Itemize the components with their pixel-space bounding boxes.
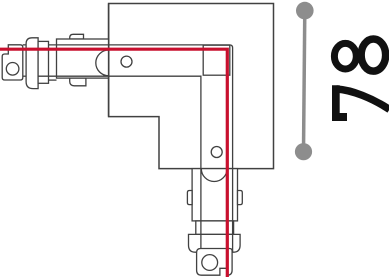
bottom connector cap hole: [202, 255, 218, 271]
plate (main square body with notched corner): [109, 4, 274, 169]
corner box: [203, 45, 230, 75]
plate left edge redraw: [108, 4, 110, 117]
connector left pivot arc: [96, 50, 109, 76]
dimension dot bottom: [295, 143, 312, 160]
red conductor line: [0, 49, 227, 277]
bottom connector pivot arc: [201, 169, 227, 182]
connector left wing: [26, 38, 38, 89]
screw hole vertical arm: [211, 147, 222, 158]
bottom connector barrel: [192, 169, 237, 221]
dimension line: [304, 11, 305, 152]
connector left barrel: [57, 39, 109, 78]
bottom connector wings: [189, 234, 241, 252]
bottom connector ear right: [238, 191, 243, 205]
track profile bottom line: [38, 76, 201, 248]
connector left block: [38, 41, 48, 83]
track profile bottom line (cap-wing gap): [23, 75, 26, 77]
bottom connector ear left: [187, 191, 192, 205]
connector left bump bottom: [70, 78, 86, 86]
connector left bump top: [70, 34, 84, 39]
screw hole horizontal arm: [121, 56, 132, 67]
bottom connector cap: [197, 249, 233, 276]
track profile top line with corner: [49, 45, 233, 252]
connector left cap: [2, 45, 23, 80]
track profile top line (cap-wing gap): [23, 44, 26, 46]
label 78 : digit 7 (rotated): [332, 85, 347, 121]
connector left cap hole: [6, 63, 19, 76]
dimension dot top: [296, 2, 314, 20]
label 78 : digit 8 (rotated): [334, 39, 385, 71]
bottom connector neck: [196, 221, 234, 235]
connector left dip bottom line: [49, 79, 57, 81]
